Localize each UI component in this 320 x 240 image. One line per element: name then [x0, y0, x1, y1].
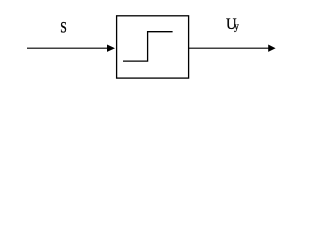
- svg-text:S: S: [60, 19, 67, 37]
- svg-text:y: y: [234, 21, 239, 33]
